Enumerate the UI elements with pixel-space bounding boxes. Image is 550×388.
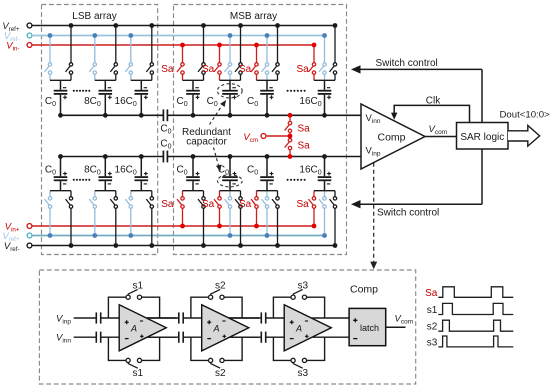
- switch Vref- MSB C0 a bottom: [198, 191, 205, 246]
- redundant capacitor ellipse bottom: [217, 175, 242, 187]
- capacitor C0 redundant MSB top: [222, 80, 238, 115]
- svg-text:Sa: Sa: [298, 123, 311, 134]
- switch Vref- MSB 16C0 top: [319, 36, 326, 81]
- node dots LSB C0 top: [69, 23, 74, 28]
- switch Vref+ MSB C0 a top: [198, 26, 205, 81]
- node dots LSB 16C0 top: [149, 23, 154, 28]
- svg-text:Switch control: Switch control: [377, 208, 439, 219]
- switch Vref- LSB C0 bottom: [66, 191, 73, 246]
- svg-text:LSB array: LSB array: [72, 11, 116, 22]
- wire Vin+ rail bottom: [32, 225, 314, 227]
- wire switch bracket LSB 16C0 top: [131, 79, 152, 81]
- node dots MSB C0 a top: [201, 23, 206, 28]
- wire outputs stage s1: [147, 317, 177, 319]
- svg-text:s1: s1: [427, 305, 438, 316]
- wire switch bracket LSB C0 bottom: [50, 190, 71, 192]
- capacitor C0 a MSB top: [186, 80, 200, 115]
- wire switch control vertical: [481, 69, 483, 122]
- svg-text:Dout<10:0>: Dout<10:0>: [500, 110, 550, 121]
- svg-text:Sa: Sa: [161, 199, 174, 210]
- switch Sa Vin+ MSB C0 redundant bottom: [214, 191, 221, 226]
- switch Vref- MSB C0 b top: [262, 36, 269, 81]
- switch Vref+ LSB 8C0 top: [110, 26, 117, 81]
- wire outputs stage s3: [312, 317, 350, 319]
- switch Vref- MSB C0 b bottom: [272, 191, 279, 246]
- node dots MSB 16C0 top: [333, 23, 338, 28]
- svg-text:Sa: Sa: [239, 64, 252, 75]
- wire cap to amp stage s2: [183, 317, 202, 319]
- wire switch bracket MSB C0 a bottom: [183, 190, 204, 192]
- capacitor input top stage s1: [96, 312, 100, 323]
- wire switch bracket LSB C0 top: [50, 79, 71, 81]
- node Vcm junction dots: [288, 113, 293, 118]
- wire Clk feedback: [394, 105, 469, 122]
- svg-text:Sa: Sa: [161, 64, 174, 75]
- capacitor input top stage s2: [179, 312, 183, 323]
- capacitor 16C0 LSB bottom: [135, 157, 149, 191]
- switch s3 bottom: [291, 358, 307, 368]
- switch Sa Vcm upper: [285, 115, 292, 136]
- switch Vref+ MSB 16C0 bottom: [319, 191, 326, 236]
- wire switch bracket MSB C0 b bottom: [257, 190, 278, 192]
- switch Vref+ MSB C0 redundant top: [235, 26, 242, 81]
- switch Vref+ LSB C0 bottom: [45, 191, 52, 236]
- wire switch bracket MSB 16C0 bottom: [314, 190, 335, 192]
- svg-text:Comp: Comp: [377, 131, 405, 143]
- switch Vref- MSB C0 redundant bottom: [235, 191, 242, 246]
- switch s2 bottom: [209, 358, 225, 368]
- wire inputs stage s3: [229, 317, 261, 319]
- switch Vref- MSB 16C0 bottom: [330, 191, 337, 246]
- op-amp comparator Comp: [361, 104, 425, 169]
- switch Sa Vin- MSB C0 a top: [177, 45, 184, 80]
- wire feedback bottom stage s3: [273, 337, 324, 360]
- svg-text:s3: s3: [298, 280, 309, 291]
- box latch: [349, 308, 386, 345]
- arrow Dout bus: [508, 125, 540, 146]
- switch Vref+ LSB 16C0 top: [146, 26, 153, 81]
- wire switch bracket MSB C0 b top: [257, 79, 278, 81]
- svg-text:Sa: Sa: [296, 199, 309, 210]
- wire feedback top stage s2: [191, 297, 242, 318]
- dashed arrow to bottom redundant capacitor: [214, 148, 219, 166]
- wire latch output Vcom: [386, 326, 406, 328]
- capacitor C0 b MSB bottom: [260, 157, 274, 191]
- capacitor C0 LSB bottom: [54, 157, 68, 191]
- svg-text:Sa: Sa: [296, 64, 309, 75]
- node dots MSB C0 b bottom: [275, 243, 280, 248]
- switch Vref+ MSB C0 redundant bottom: [225, 191, 232, 236]
- svg-text:Sa: Sa: [239, 199, 252, 210]
- switch s1 top: [126, 289, 142, 299]
- wire feedback top stage s3: [273, 297, 324, 318]
- waveform s1: [438, 303, 513, 314]
- capacitor input bottom stage s2: [179, 332, 183, 343]
- capacitor 16C0 MSB bottom: [318, 157, 332, 191]
- capacitor C0 LSB top: [54, 80, 68, 115]
- svg-text:s1: s1: [133, 368, 144, 379]
- svg-text:Sa: Sa: [425, 288, 438, 299]
- wire cap to amp stage s3: [266, 317, 285, 319]
- wire switch bracket LSB 16C0 bottom: [131, 190, 152, 192]
- node dots MSB C0 a bottom: [201, 243, 206, 248]
- capacitor input bottom stage s3: [261, 332, 265, 343]
- capacitor C0 bridge top: [163, 109, 167, 121]
- svg-text:Sa: Sa: [202, 199, 215, 210]
- node dots MSB C0 redundant top: [238, 23, 243, 28]
- capacitor 8C0 LSB top: [99, 80, 113, 115]
- switch Vref- MSB C0 redundant top: [225, 36, 232, 81]
- svg-text:A: A: [130, 323, 137, 333]
- svg-text:capacitor: capacitor: [186, 137, 227, 148]
- capacitor C0 b MSB top: [260, 80, 274, 115]
- capacitor 8C0 LSB bottom: [99, 157, 113, 191]
- switch s1 bottom: [126, 358, 142, 368]
- node dots LSB 8C0 bottom: [113, 243, 118, 248]
- wire Vref+ rail top: [32, 25, 335, 27]
- wire switch bracket LSB 8C0 top: [95, 79, 116, 81]
- switch Sa Vin+ MSB 16C0 bottom: [309, 191, 316, 226]
- op-amp preamp A stage s2: [202, 305, 249, 351]
- switch Sa Vin+ MSB C0 b bottom: [251, 191, 258, 226]
- switch Vref+ MSB C0 b top: [272, 26, 279, 81]
- wire inputs stage s2: [147, 317, 179, 319]
- wire switch bracket LSB 8C0 bottom: [95, 190, 116, 192]
- node dots LSB 16C0 bottom: [149, 243, 154, 248]
- svg-text:Sa: Sa: [298, 140, 311, 151]
- capacitor 16C0 MSB top: [318, 80, 332, 115]
- switch Vref+ LSB 8C0 bottom: [89, 191, 96, 236]
- ellipsis LSB top: [73, 90, 91, 92]
- dashed arrow comparator to Comp detail box: [373, 163, 375, 264]
- svg-text:Sa: Sa: [202, 64, 215, 75]
- svg-text:Switch control: Switch control: [376, 58, 438, 69]
- wire comparator output Vcom: [425, 136, 457, 138]
- terminal Vcm: [261, 134, 266, 139]
- wire switch bracket MSB C0 a top: [183, 79, 204, 81]
- wire feedback bottom stage s1: [108, 337, 159, 360]
- switch s2 top: [209, 289, 225, 299]
- capacitor 16C0 LSB top: [135, 80, 149, 115]
- LSB array dashed box: [42, 5, 158, 255]
- waveform Sa: [438, 287, 513, 298]
- svg-text:s2: s2: [215, 368, 226, 379]
- capacitor C0 redundant MSB bottom: [222, 157, 238, 191]
- svg-text:s1: s1: [133, 280, 144, 291]
- node dots MSB C0 redundant bottom: [238, 243, 243, 248]
- MSB array dashed box: [174, 5, 347, 255]
- wire switch bracket MSB C0 redundant top: [220, 79, 241, 81]
- switch Vref+ MSB C0 b bottom: [262, 191, 269, 236]
- svg-text:s3: s3: [298, 368, 309, 379]
- wire bottom node rail to comparator Vinp: [61, 156, 164, 158]
- svg-text:latch: latch: [360, 323, 379, 333]
- switch Sa Vin- MSB 16C0 top: [309, 45, 316, 80]
- switch Sa Vin- MSB C0 redundant top: [214, 45, 221, 80]
- wire top node rail to comparator Vinn: [61, 114, 164, 116]
- ellipsis MSB bottom: [287, 179, 306, 181]
- wire switch control top: [357, 68, 482, 70]
- switch Sa Vin- MSB C0 b top: [251, 45, 258, 80]
- svg-text:SAR logic: SAR logic: [460, 132, 504, 143]
- switch Vref- LSB 8C0 bottom: [110, 191, 117, 246]
- wire Vref- rail top: [32, 35, 325, 37]
- node dots MSB C0 b top: [275, 23, 280, 28]
- svg-text:Comp: Comp: [350, 284, 378, 296]
- switch Vref- LSB C0 top: [45, 36, 52, 81]
- wire switch control bottom: [357, 203, 482, 205]
- wire Vref- rail bottom: [32, 245, 335, 247]
- ellipsis MSB top: [287, 90, 306, 92]
- switch Vref+ LSB 16C0 bottom: [125, 191, 132, 236]
- switch Vref+ LSB C0 top: [66, 26, 73, 81]
- ellipsis LSB bottom: [73, 179, 91, 181]
- redundant capacitor ellipse top: [217, 84, 242, 98]
- wire inputs stage s1: [74, 317, 97, 319]
- node dots MSB 16C0 bottom: [333, 243, 338, 248]
- svg-text:s2: s2: [215, 280, 226, 291]
- node dots LSB 8C0 top: [113, 23, 118, 28]
- op-amp preamp A stage s1: [119, 305, 166, 351]
- svg-text:Clk: Clk: [426, 96, 441, 107]
- wire feedback bottom stage s2: [191, 337, 242, 360]
- capacitor C0 a MSB bottom: [186, 157, 200, 191]
- wire Vcm: [267, 135, 290, 137]
- wire feedback top stage s1: [108, 297, 159, 318]
- wire Vin- rail top: [32, 44, 314, 46]
- wire outputs stage s2: [229, 317, 259, 319]
- wire Vref+ rail bottom: [32, 235, 325, 237]
- svg-text:s3: s3: [427, 337, 438, 348]
- waveform s3: [438, 336, 513, 347]
- op-amp preamp A stage s3: [284, 305, 331, 351]
- switch Vref- LSB 16C0 top: [125, 36, 132, 81]
- switch Vref- LSB 8C0 top: [89, 36, 96, 81]
- box SAR logic: [457, 123, 509, 150]
- dashed arrow to top redundant capacitor: [210, 107, 222, 125]
- wire cap to amp stage s1: [101, 317, 120, 319]
- capacitor C0 bridge bottom: [163, 151, 167, 163]
- waveform s2: [438, 320, 513, 331]
- svg-text:A: A: [213, 323, 220, 333]
- capacitor input top stage s3: [261, 312, 265, 323]
- switch Vref- LSB 16C0 bottom: [146, 191, 153, 246]
- switch Sa Vin+ MSB C0 a bottom: [177, 191, 184, 226]
- wire switch bracket MSB C0 redundant bottom: [220, 190, 241, 192]
- svg-text:MSB array: MSB array: [230, 11, 277, 22]
- svg-text:A: A: [295, 323, 302, 333]
- svg-text:s2: s2: [427, 322, 438, 333]
- capacitor input bottom stage s1: [96, 332, 100, 343]
- Comp detail dashed box: [39, 270, 415, 384]
- switch Vref+ MSB 16C0 top: [330, 26, 337, 81]
- node dots LSB C0 bottom: [69, 243, 74, 248]
- switch s3 top: [291, 289, 307, 299]
- wire switch bracket MSB 16C0 top: [314, 79, 335, 81]
- switch Sa Vcm lower: [285, 136, 292, 157]
